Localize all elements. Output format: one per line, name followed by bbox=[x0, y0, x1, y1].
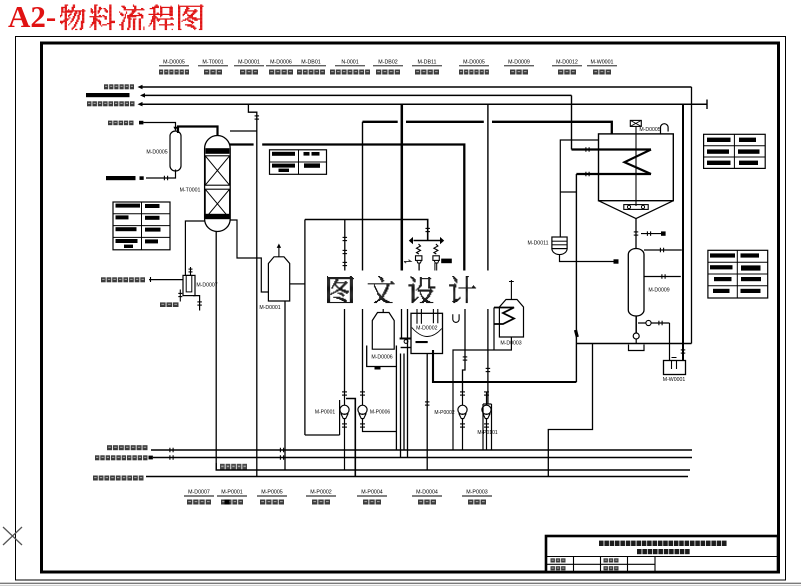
title block header text line 1 bbox=[599, 541, 727, 546]
pump symbol at x=344.5 bbox=[340, 405, 349, 414]
flow label gas from water seal bbox=[101, 277, 145, 282]
x345 standpipe with valve stack bbox=[344, 220, 346, 271]
svg-text:M-D0006: M-D0006 bbox=[270, 60, 292, 66]
melter cone outlet to M-D0009 bbox=[635, 219, 637, 249]
agitator impeller in cone bbox=[624, 205, 648, 210]
condensate downcomer x576 bbox=[575, 174, 577, 382]
svg-text:M-P0004: M-P0004 bbox=[361, 490, 383, 496]
branch with blind at y=233.6 bbox=[641, 233, 661, 235]
right dip tube into M-D0002 bbox=[433, 307, 437, 324]
reactor M-D0001 vessel bbox=[268, 257, 289, 301]
black label bar near sprays bbox=[441, 259, 452, 264]
svg-text:M-P0001: M-P0001 bbox=[221, 490, 243, 496]
thick gas line y=144.5 from column to x464 downcomer bbox=[230, 145, 464, 272]
pump3 pump4 discharge drops bbox=[462, 428, 464, 450]
svg-text:M-T0001: M-T0001 bbox=[180, 188, 201, 194]
svg-text:M-D0005: M-D0005 bbox=[463, 60, 485, 66]
pump symbol at x=486.5 bbox=[482, 405, 491, 414]
end cap of header L3 bbox=[706, 100, 708, 110]
reactor vent stub with arrow bbox=[278, 247, 280, 257]
steam main label blob bbox=[220, 464, 247, 470]
svg-text:M-D0011: M-D0011 bbox=[528, 240, 549, 246]
small flow arrow annotation bbox=[404, 260, 411, 263]
red sheet title A2-material flow diagram bbox=[8, 0, 204, 34]
svg-text:M-P0001: M-P0001 bbox=[315, 410, 336, 416]
title block frame bbox=[546, 536, 778, 572]
flow label steam from battery limit bbox=[95, 455, 148, 460]
svg-text:M-D0007: M-D0007 bbox=[188, 490, 210, 496]
svg-text:M-D0009: M-D0009 bbox=[648, 288, 669, 294]
svg-text:M-P0005: M-P0005 bbox=[261, 490, 283, 496]
U tube right of M-D0002 bbox=[453, 314, 459, 322]
pump3 suction from x465 line bbox=[463, 307, 466, 393]
agitator shaft bbox=[635, 126, 637, 206]
reactor bottom outlet downcomer bbox=[284, 301, 286, 470]
M-D0009 side branch y=323 to waste pool bbox=[638, 322, 670, 324]
svg-text:M-DB02: M-DB02 bbox=[378, 60, 397, 66]
column top vapour line to x257 riser bbox=[230, 130, 257, 132]
column packing section 2 with X bbox=[205, 189, 229, 218]
svg-text:M-W0001: M-W0001 bbox=[591, 60, 614, 66]
svg-text:M-DB11: M-DB11 bbox=[417, 60, 436, 66]
dished level arc inside M-D0002 bbox=[412, 328, 442, 337]
svg-text:M-P0006: M-P0006 bbox=[370, 410, 391, 416]
pump1 side jog line bbox=[346, 399, 355, 477]
flow label low pressure steam pipe network bbox=[87, 101, 135, 106]
bottom header B3 y=470 bbox=[216, 463, 690, 470]
coil inside M-D0003 bbox=[494, 308, 514, 325]
M-D0009 bottom outlet with trap bbox=[635, 316, 637, 333]
svg-text:M-P0002: M-P0002 bbox=[434, 410, 455, 416]
svg-text:A2-: A2- bbox=[8, 0, 56, 34]
top equipment tag labels row bbox=[159, 60, 617, 75]
pump symbol at x=462.5 bbox=[458, 405, 467, 414]
svg-text:M-D0005: M-D0005 bbox=[163, 60, 185, 66]
flow label circulating cooling water bbox=[93, 476, 144, 481]
svg-text:M-D0007: M-D0007 bbox=[196, 283, 217, 289]
column packing section 1 with X bbox=[205, 156, 229, 185]
cross connect y192 bbox=[560, 191, 576, 193]
drain bracket under M-D0009 bbox=[629, 345, 645, 351]
column bottom outlet downcomer to header bbox=[215, 232, 217, 471]
arrow on header L3 bbox=[138, 102, 143, 107]
svg-text:M-D0002: M-D0002 bbox=[416, 326, 437, 332]
coil connection standpipe bbox=[493, 308, 495, 351]
black duty bar label low pressure steam bbox=[86, 93, 130, 97]
watermark white box bbox=[321, 271, 492, 310]
M-D0002 bottom outlet downcomer with valve bbox=[426, 354, 428, 471]
bottom header B4 y=476.5 bbox=[146, 476, 688, 478]
reactor side outlet to x305 riser bbox=[290, 283, 305, 285]
svg-text:M-D0005: M-D0005 bbox=[146, 150, 167, 156]
middle stream data table bbox=[270, 150, 327, 175]
header pipe L1 y=87 bbox=[143, 86, 692, 88]
inlet pipe to M-D0005 separator bbox=[143, 123, 175, 129]
black duty bar at separator drain bbox=[106, 176, 136, 180]
column top black band bbox=[205, 148, 229, 154]
right flexible hose and funnel to M-D0002 bbox=[434, 244, 438, 254]
bottom header B1 y=450 bbox=[151, 449, 692, 451]
vent valve on water seal bbox=[190, 267, 192, 275]
svg-text:M-D0001: M-D0001 bbox=[238, 60, 260, 66]
flow label lime dust inlet bbox=[108, 121, 134, 126]
M-D0003 bottom outlet to pump suctions bbox=[453, 337, 511, 450]
svg-text:N-0001: N-0001 bbox=[341, 60, 358, 66]
separator bottom drain pipe with valve bbox=[146, 170, 176, 179]
X register mark at left edge bbox=[3, 527, 22, 545]
vessel M-D0006 cone-top tank bbox=[372, 313, 394, 350]
bottom window separator lines bbox=[0, 582, 801, 584]
melter left wall pipe to M-D0011 standpipe bbox=[560, 140, 598, 237]
svg-text:M-DB01: M-DB01 bbox=[301, 60, 320, 66]
column M-T0001 shell with domes bbox=[205, 135, 231, 231]
M-D0006 support skirt bbox=[367, 346, 397, 367]
left downcomer bundle beside M-D0002 bbox=[401, 307, 403, 339]
condensate line y=344 to waste pool riser bbox=[576, 343, 691, 345]
arrow on header L1 bbox=[138, 85, 143, 90]
drop line from y344 to bottom headers via x592 x548 bbox=[548, 344, 592, 477]
right upper stream data table bbox=[704, 134, 766, 168]
svg-text:M-D0004: M-D0004 bbox=[416, 490, 438, 496]
inlet pipe to water seal bbox=[149, 279, 183, 281]
suction drops from watermark to pumps 1 2 bbox=[344, 307, 346, 393]
downcomer x691.5 from header L1 bbox=[691, 87, 693, 344]
spray header tee with arrows bbox=[414, 240, 441, 242]
flow label to ditch bbox=[160, 302, 179, 307]
drain valve to ditch bbox=[179, 290, 181, 302]
header pipe L3 y=104.2 bbox=[143, 103, 708, 105]
header pipe L2 y=95.4 bbox=[145, 94, 572, 96]
svg-text:M-P0003: M-P0003 bbox=[466, 490, 488, 496]
right lower stream data table bbox=[708, 250, 768, 298]
thick gas line y=121.8 to melter M-D0005 inlet bbox=[363, 122, 612, 134]
bottom header B2 y=457.5 bbox=[153, 457, 692, 459]
svg-text:M-D0001: M-D0001 bbox=[259, 305, 280, 311]
title block grid lines bbox=[546, 556, 778, 558]
gas-liquid separator M-D0005 (small column) bbox=[170, 131, 181, 171]
waste pool feed valve bbox=[681, 349, 686, 351]
svg-text:M-T0001: M-T0001 bbox=[202, 60, 223, 66]
watermark text tu wen she ji bbox=[327, 276, 354, 303]
steam coil zigzag bbox=[625, 150, 652, 175]
M-D0006 skirt outlet downcomer bbox=[395, 367, 397, 451]
steam coil outlet line bbox=[576, 173, 651, 175]
column right outlet elbow to x257 line bbox=[230, 220, 257, 258]
flow label soft water from battery limit bbox=[107, 445, 148, 450]
column left liquid outlet to water seal bbox=[185, 221, 204, 275]
internal black bar in M-D0002 bbox=[416, 341, 428, 343]
pump discharge drops to headers bbox=[344, 428, 346, 470]
bottom equipment tag labels row bbox=[184, 490, 492, 505]
arrow on header L2 bbox=[140, 93, 145, 98]
svg-text:M-P0101: M-P0101 bbox=[477, 430, 498, 436]
riser hook from header L3 to x257 downcomer bbox=[248, 104, 256, 477]
waste liquid pool M-W0001 bbox=[664, 361, 686, 375]
suction loop x305 to bottom bbox=[305, 434, 340, 436]
x362 downcomer from gas line bbox=[362, 122, 364, 272]
black square fitting on inlet bbox=[139, 121, 143, 125]
downcomer x683 from header L3 bbox=[682, 104, 684, 360]
pump symbol at x=362.5 bbox=[358, 405, 367, 414]
vent gooseneck on melter top bbox=[661, 124, 669, 134]
svg-text:M-P0002: M-P0002 bbox=[310, 490, 332, 496]
sulfur column M-D0009 bbox=[628, 249, 644, 317]
liquor return line y=382 to M-D0002 area bbox=[433, 350, 576, 382]
feed elbow into reactor M-D0001 bbox=[257, 258, 269, 292]
separator overhead pipe to column M-T0001 bbox=[178, 127, 218, 139]
melter cone bottom bbox=[599, 201, 674, 219]
left dip tube into M-D0002 bbox=[417, 307, 421, 324]
M-D0006 top feed stub bbox=[382, 307, 384, 313]
pump4 risers bbox=[482, 404, 484, 450]
M-D0003 vent stub bbox=[510, 280, 512, 300]
x402 downcomer from header L3 bbox=[401, 104, 404, 271]
svg-text:M-D0012: M-D0012 bbox=[556, 60, 578, 66]
agitator motor box bbox=[630, 120, 641, 126]
liquor distribution line y=219.5 bbox=[305, 220, 428, 241]
column lower black band bbox=[205, 214, 229, 219]
title block cell labels bbox=[551, 558, 566, 562]
svg-text:M-D0006: M-D0006 bbox=[371, 355, 392, 361]
vessel M-D0003 cone-top with coil bbox=[499, 300, 523, 338]
melter M-D0005 shell bbox=[599, 134, 674, 201]
left stream data table bbox=[113, 202, 170, 250]
side stub pipes into M-D0002 bbox=[400, 338, 411, 340]
svg-text:M-D0009: M-D0009 bbox=[508, 60, 530, 66]
vessel M-D0002 open tank bbox=[411, 313, 443, 353]
svg-text:M-D0005: M-D0005 bbox=[639, 127, 660, 133]
title block header text line 2 bbox=[637, 549, 690, 554]
M-D0011 outlet line with end cap bbox=[560, 255, 614, 262]
pump2 discharge elbow bbox=[363, 428, 397, 432]
flow label to waste water treatment bbox=[104, 84, 134, 89]
svg-text:M-W0001: M-W0001 bbox=[663, 377, 686, 383]
M-D0009 top right branch y=250 bbox=[644, 249, 682, 251]
steam coil inlet line from L2 bbox=[571, 95, 573, 149]
water seal vessel M-D0007 bbox=[183, 275, 195, 295]
M-D0009 mid branch y=276.5 bbox=[644, 276, 681, 278]
left flexible hose and funnel to M-D0002 bbox=[417, 244, 421, 254]
x487 downcomer from header L3 bbox=[487, 104, 489, 271]
x305 riser-downcomer bbox=[304, 220, 306, 436]
slag hopper M-D0011 bbox=[552, 237, 567, 249]
water seal bottom outlet bbox=[193, 296, 200, 311]
